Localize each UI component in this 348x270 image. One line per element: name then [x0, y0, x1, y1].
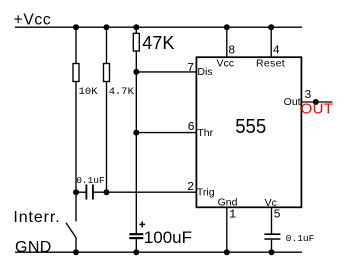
wire : pin 6 to Thr [136, 132, 196, 134]
junction at pin 7 wire [133, 69, 139, 75]
wire : +Vcc top rail [15, 26, 302, 28]
svg-text:Out: Out [284, 96, 301, 108]
junction at trig/10K branch [73, 189, 79, 195]
svg-text:Interr.: Interr. [13, 209, 60, 226]
svg-text:4.7K: 4.7K [109, 86, 135, 98]
capacitor 0.1uF (series, trig line) [85, 185, 87, 200]
wire : 100uF bottom lead [135, 239, 137, 252]
wire : pin 8 Vcc [226, 27, 228, 57]
wire : trig wire left segment [76, 191, 86, 193]
capacitor 0.1uF (pin 5 control) [264, 233, 280, 235]
svg-text:Vcc: Vcc [217, 57, 235, 69]
wire : pin 5 Vc top lead [271, 207, 273, 233]
junction at GND/pin1 [224, 249, 230, 255]
svg-text:Vc: Vc [265, 197, 277, 209]
svg-text:Gnd: Gnd [218, 197, 238, 209]
junction on +Vcc rail at 10K [73, 24, 79, 30]
svg-text:8: 8 [228, 44, 235, 58]
svg-text:2: 2 [187, 180, 194, 194]
svg-text:10K: 10K [79, 86, 99, 98]
junction at trig/4.7K branch [104, 189, 110, 195]
svg-text:Reset: Reset [256, 57, 285, 69]
wire : 10K branch vertical [75, 27, 77, 192]
junction at GND/100uF [133, 249, 139, 255]
svg-text:1: 1 [229, 208, 236, 222]
junction on +Vcc rail at 47K [133, 24, 139, 30]
svg-text:6: 6 [188, 120, 195, 134]
wire : GND bottom rail [15, 251, 302, 253]
svg-text:555: 555 [235, 116, 266, 138]
svg-text:Trig: Trig [197, 187, 215, 199]
svg-text:0.1uF: 0.1uF [76, 175, 105, 186]
capacitor 100uF (polarized) [129, 233, 143, 235]
wire : pin 3 Out [301, 101, 332, 103]
svg-text:Thr: Thr [197, 127, 213, 139]
svg-text:0.1uF: 0.1uF [286, 233, 315, 244]
resistor 4.7K [104, 64, 110, 82]
junction at GND/switch [73, 249, 79, 255]
wire : pin 5 cap bottom lead [271, 240, 273, 252]
junction on +Vcc rail at pin 8 [224, 24, 230, 30]
svg-text:5: 5 [274, 208, 281, 222]
resistor 47K [133, 33, 139, 51]
wire : 47K branch vertical (rail to 100uF cap) [135, 27, 137, 233]
resistor 10K [73, 64, 79, 82]
svg-text:47K: 47K [142, 33, 174, 53]
svg-text:Dis: Dis [197, 66, 212, 78]
wire : pin 4 Reset [270, 27, 272, 57]
junction on +Vcc rail at 4.7K [104, 24, 110, 30]
svg-text:+Vcc: +Vcc [14, 12, 52, 29]
wire : 4.7K branch vertical [106, 27, 108, 192]
wire : trig wire right segment to pin 2 [94, 191, 197, 193]
junction at GND/pin5 cap [269, 249, 275, 255]
svg-text:4: 4 [273, 44, 280, 58]
wire : pin 1 Gnd [226, 207, 228, 252]
svg-text:GND: GND [15, 239, 52, 256]
op-amp U1 : 555 timer IC body [196, 57, 301, 207]
junction at pin 6 wire [133, 130, 139, 136]
junction on +Vcc rail at pin 4 [268, 24, 274, 30]
svg-text:OUT: OUT [301, 101, 334, 118]
wire : pin 7 to Dis [136, 71, 196, 73]
svg-text:7: 7 [187, 61, 194, 75]
svg-text:100uF: 100uF [144, 228, 192, 247]
svg-text:3: 3 [304, 88, 311, 102]
